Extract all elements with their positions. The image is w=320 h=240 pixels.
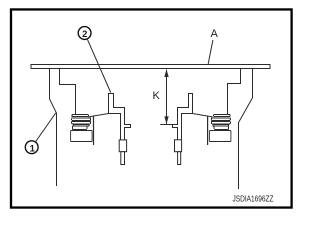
- left stepped stud: [60, 69, 76, 115]
- right grommet plate 1: [214, 115, 230, 117]
- right grommet plate 4: [213, 125, 229, 127]
- dimension K arrow line: [166, 70, 168, 124]
- right bracket block: [175, 140, 182, 152]
- right bracket outer contour: [173, 94, 193, 140]
- right grommet body box: [209, 131, 231, 142]
- svg-text:1: 1: [30, 143, 36, 154]
- right bracket surface line: [182, 114, 213, 140]
- dimension K top arrowhead: [164, 69, 168, 77]
- left bracket outer contour: [109, 94, 131, 140]
- dimension K datum tick line: [160, 124, 177, 126]
- dimension K bottom arrowhead: [164, 116, 168, 124]
- left hanger leg (funnel): [50, 69, 57, 186]
- label circle 2: [78, 27, 91, 40]
- svg-text:K: K: [153, 90, 161, 102]
- right grommet neck: [214, 126, 228, 129]
- left grommet neck: [72, 126, 86, 129]
- right grommet plate 2: [211, 118, 230, 121]
- left grommet plate 2: [72, 118, 91, 121]
- right stepped stud: [228, 69, 241, 115]
- svg-text:JSDIA1696ZZ: JSDIA1696ZZ: [233, 194, 274, 204]
- left grommet body box: [71, 131, 93, 142]
- right hanger leg (funnel): [239, 69, 253, 189]
- label A leader line: [208, 40, 213, 64]
- svg-text:A: A: [211, 28, 219, 40]
- left harness wire: [93, 116, 95, 145]
- left bracket surface line: [89, 114, 121, 140]
- bar A (bracket cross member): [31, 65, 270, 69]
- left bracket pin: [121, 152, 125, 165]
- left grommet plate 1: [72, 115, 88, 117]
- frame border: [11, 9, 292, 207]
- left grommet plate 3: [72, 121, 91, 124]
- right grommet plate 3: [211, 121, 230, 124]
- right harness wire: [207, 116, 209, 145]
- label circle 1: [25, 141, 38, 154]
- svg-text:2: 2: [82, 29, 87, 40]
- label 2 leader line: [87, 39, 111, 93]
- left bracket block: [119, 140, 126, 152]
- right bracket pin: [178, 152, 181, 165]
- left grommet plate 4: [73, 125, 89, 127]
- label 1 leader line: [35, 113, 56, 142]
